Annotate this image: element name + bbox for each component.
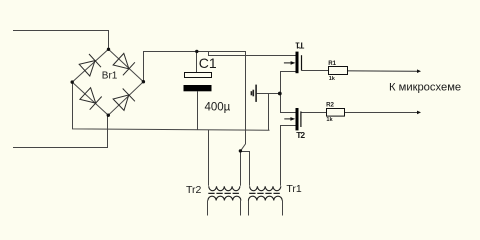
- svg-text:R1: R1: [328, 60, 336, 67]
- transformer Tr2 top winding: [209, 186, 240, 190]
- wire bridge arm upper-right: [108, 49, 143, 81]
- node transformer center tap: [239, 149, 242, 152]
- wire Tr2 left lead from bottom rail: [208, 130, 210, 186]
- wire bias riser bottom rail to ground wire: [268, 94, 270, 131]
- transistor T2 gate bar: [300, 111, 302, 127]
- node source-drain junction: [278, 92, 282, 96]
- svg-text:T1: T1: [295, 40, 304, 50]
- wire center tap down to Tr2 right lead: [240, 151, 242, 186]
- ground symbol middle bar: [252, 90, 254, 97]
- diode D3 lower-left: [80, 88, 102, 110]
- ground symbol short bar: [250, 91, 252, 95]
- wire R1 to output 1: [348, 70, 418, 73]
- transformer Tr1 core dashed line: [249, 192, 281, 194]
- wire AC input bottom-left stub: [13, 115, 108, 147]
- wire T2 drain lead: [281, 94, 296, 113]
- wire T2 source to Tr1 right lead: [281, 126, 296, 186]
- svg-text:T2: T2: [296, 130, 305, 140]
- transformer Tr2 bottom leads: [208, 201, 241, 216]
- diode D2 upper-right: [113, 53, 135, 75]
- svg-text:R2: R2: [326, 102, 334, 109]
- transistor T1 gate bar: [301, 55, 303, 70]
- diode D4 lower-right: [113, 89, 135, 111]
- svg-text:1k: 1k: [326, 117, 333, 123]
- transistor T1 body arrow: [284, 61, 296, 65]
- transistor T2 body arrow: [284, 117, 295, 121]
- output arrow 2: [417, 111, 421, 115]
- wire R2 to output 2: [345, 112, 418, 114]
- wire jog branch rail to T1 drain: [209, 52, 297, 56]
- resistor R1 box: [329, 67, 348, 75]
- transformer Tr1 top winding: [250, 186, 281, 190]
- node bottom vertex: [107, 114, 110, 117]
- svg-text:400µ: 400µ: [205, 102, 231, 114]
- wire T1 gate lead to R1: [302, 70, 329, 72]
- svg-text:К микросхеме: К микросхеме: [389, 82, 461, 94]
- capacitor C1 top plate: [185, 73, 212, 78]
- svg-text:Br1: Br1: [102, 70, 118, 81]
- capacitor C1 bottom plate: [184, 85, 212, 91]
- wire bridge arm upper-left: [72, 49, 108, 82]
- wire AC input top-left stub: [13, 31, 109, 50]
- transformer Tr2 core dashed line: [208, 192, 240, 194]
- wire bridge arm lower-right: [108, 82, 143, 116]
- node C1 tap on rail: [195, 50, 198, 53]
- wire T2 gate lead to R2: [301, 112, 327, 114]
- wire T1 source lead: [281, 72, 296, 94]
- wire ground to junction: [256, 93, 280, 95]
- transformer Tr1 bottom leads: [249, 201, 283, 216]
- transformer Tr2 bottom winding: [208, 196, 241, 200]
- svg-text:1k: 1k: [329, 76, 336, 82]
- diode D1 upper-left: [79, 54, 101, 76]
- wire positive rail from bridge to corner x=245: [144, 52, 246, 151]
- svg-text:C1: C1: [199, 55, 217, 71]
- wire bridge arm lower-left: [72, 82, 108, 115]
- wire negative bottom rail: [73, 82, 270, 130]
- transistor T2 channel bar: [296, 108, 299, 130]
- node top vertex: [107, 48, 110, 51]
- resistor R2 box: [327, 109, 345, 117]
- transistor T1 channel bar: [296, 52, 299, 74]
- capacitor C1 bottom lead: [197, 91, 199, 129]
- wire center tap to Tr1 left lead: [241, 152, 250, 186]
- svg-text:Tr2: Tr2: [186, 184, 202, 196]
- ground symbol (rotated left) long bar: [255, 85, 257, 102]
- capacitor C1 top lead: [196, 51, 198, 72]
- svg-text:Tr1: Tr1: [286, 183, 302, 195]
- transformer Tr1 bottom winding: [248, 196, 282, 200]
- output arrow 1: [417, 69, 421, 73]
- node left vertex: [71, 80, 74, 83]
- node right vertex: [142, 80, 145, 83]
